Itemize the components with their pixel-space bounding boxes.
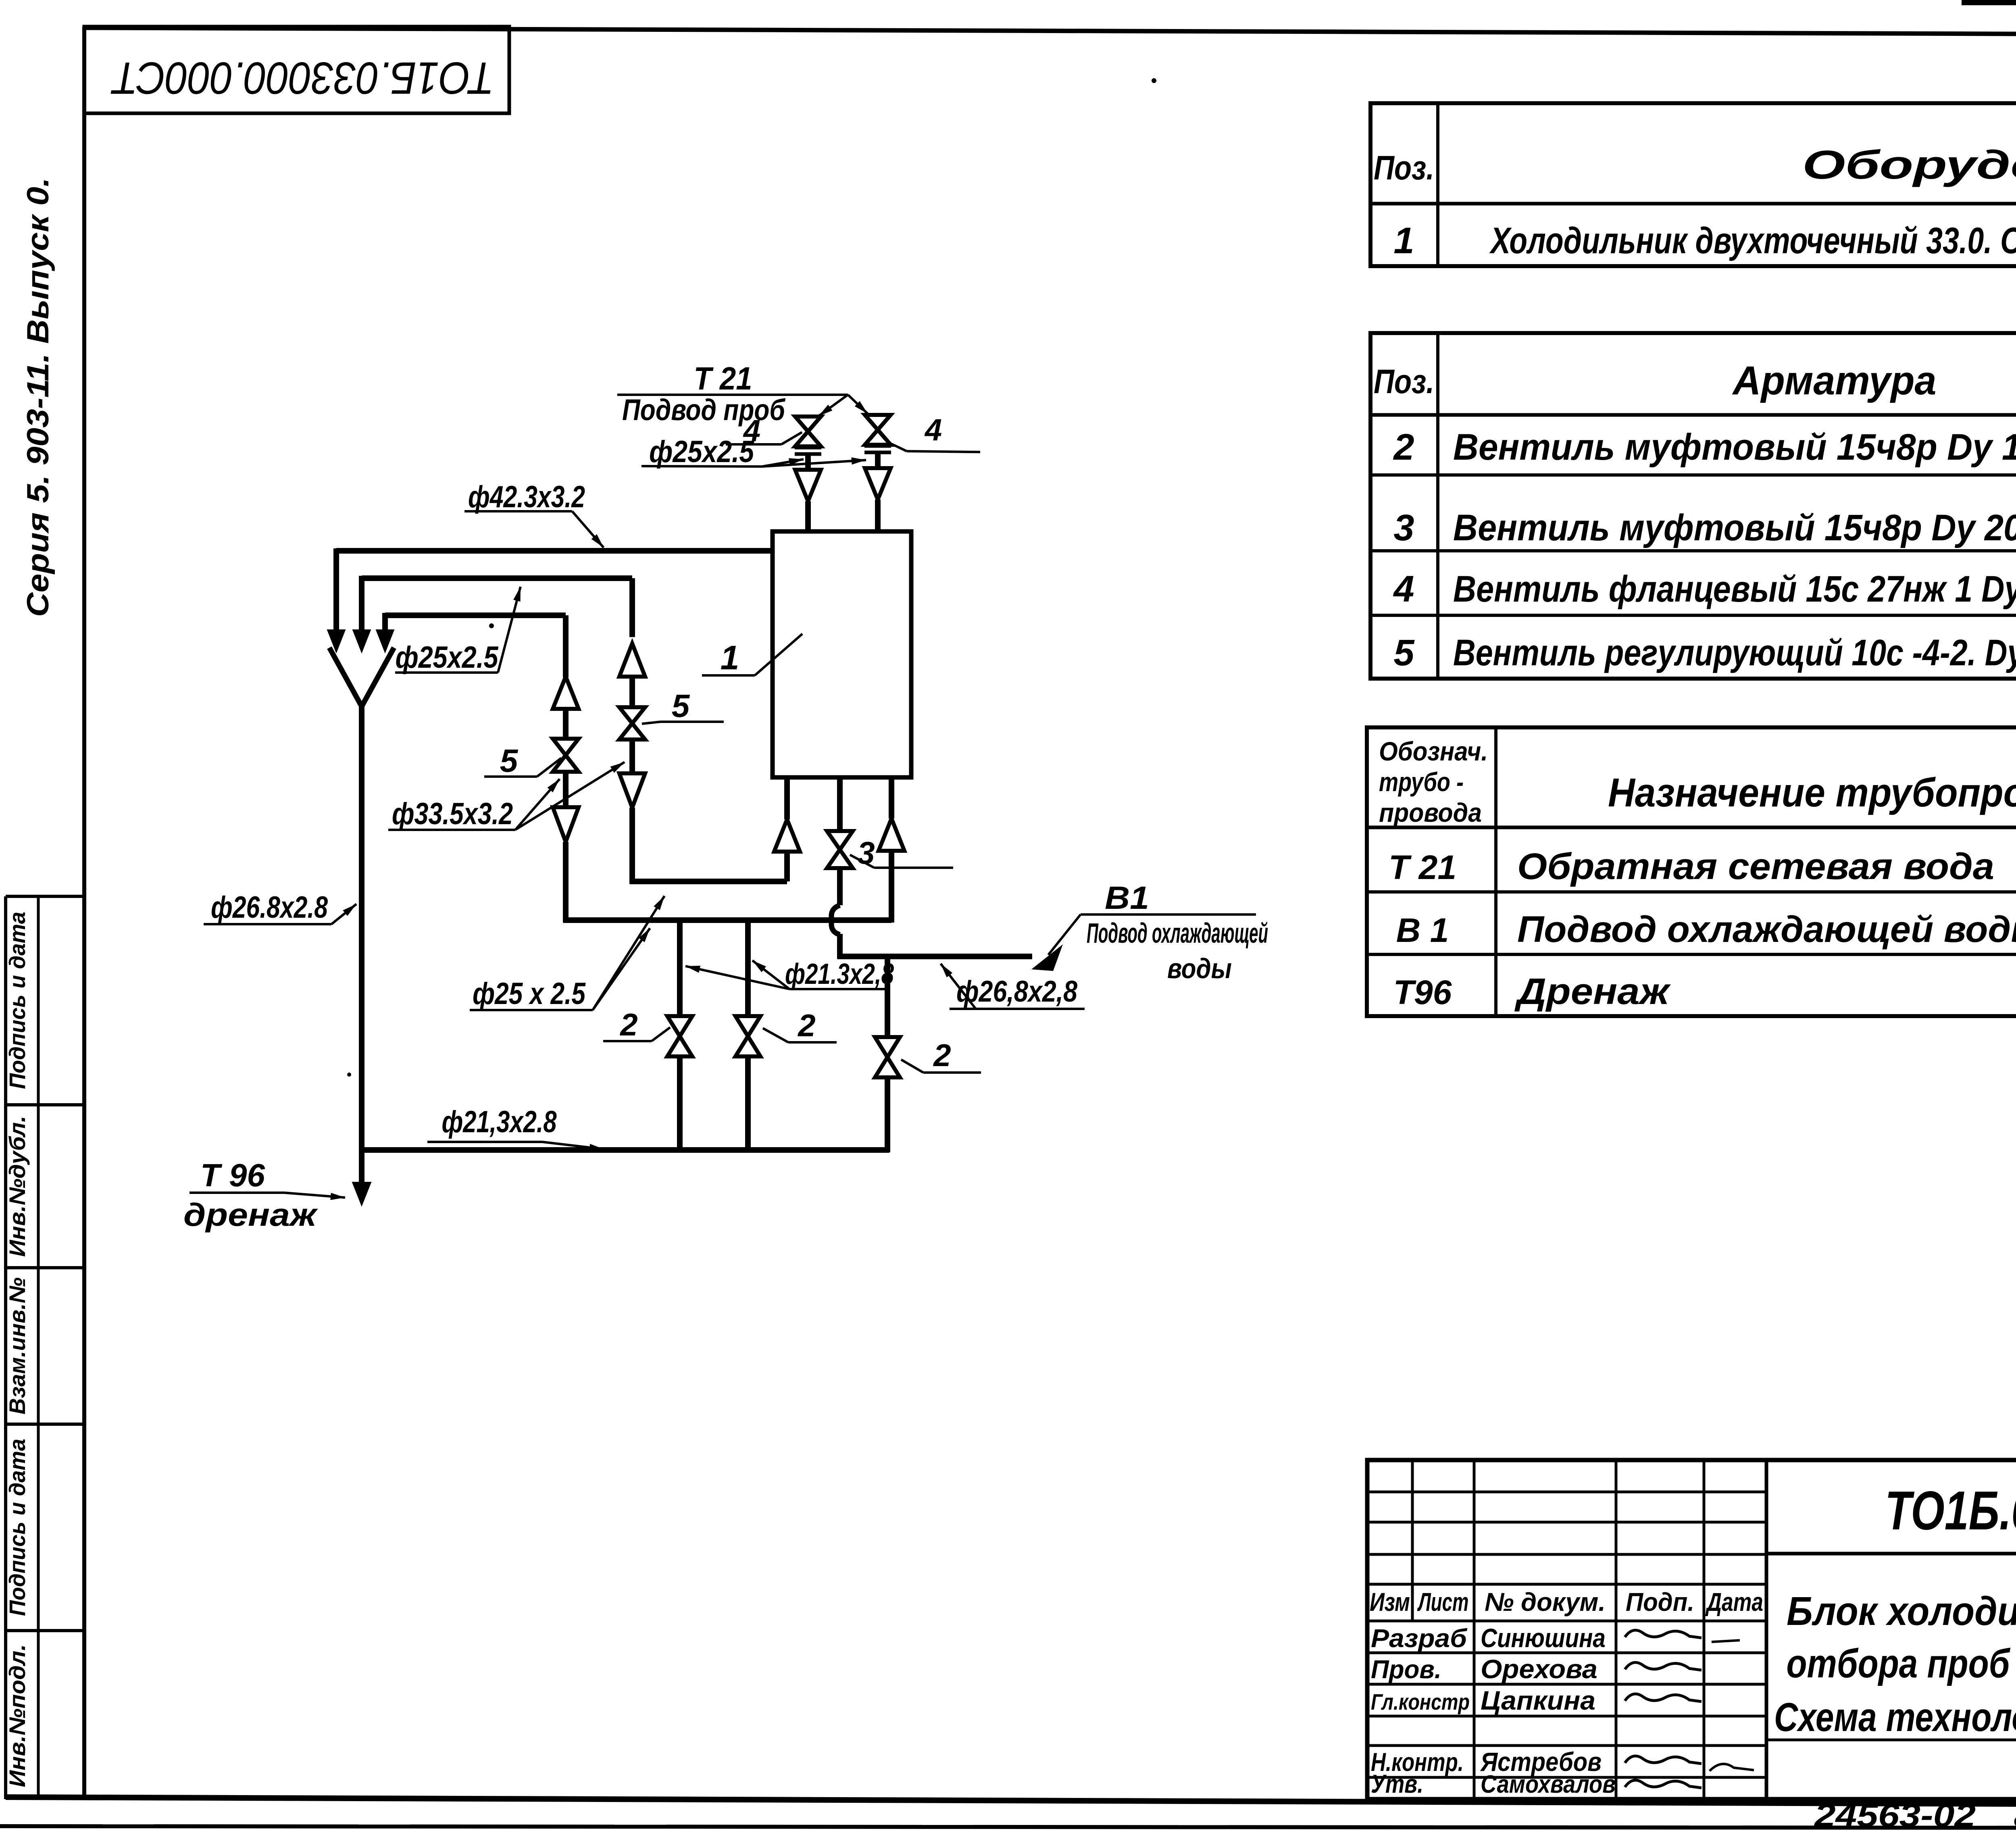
svg-text:Блок холодильника: Блок холодильника <box>1787 1589 2016 1634</box>
svg-text:Орехова: Орехова <box>1481 1654 1597 1684</box>
svg-text:Подпись и дата: Подпись и дата <box>4 1439 30 1616</box>
svg-text:Вентиль муфтовый 15ч8р Dу: Вентиль муфтовый 15ч8р Dу 15 , Ру 10 <box>1453 427 2016 468</box>
svg-text:Инв.№подл.: Инв.№подл. <box>4 1644 30 1787</box>
svg-text:отбора проб БХОП: отбора проб БХОП <box>1787 1641 2016 1686</box>
svg-text:ТО1Б.033000.000СТ: ТО1Б.033000.000СТ <box>110 53 494 103</box>
svg-text:Арматура: Арматура <box>1732 358 1937 403</box>
svg-text:Дренаж: Дренаж <box>1514 971 1671 1012</box>
svg-text:Т 21: Т 21 <box>694 360 752 396</box>
svg-text:82: 82 <box>2014 1798 2016 1831</box>
svg-text:Подпись и дата: Подпись и дата <box>4 912 30 1089</box>
svg-text:Поз.: Поз. <box>1374 149 1434 187</box>
svg-text:ф42.3х3.2: ф42.3х3.2 <box>468 480 585 514</box>
svg-text:В 1: В 1 <box>1396 911 1449 949</box>
svg-text:Инв.№дубл.: Инв.№дубл. <box>4 1116 30 1257</box>
svg-text:ф25х2.5: ф25х2.5 <box>649 435 754 469</box>
svg-text:Обознач.: Обознач. <box>1379 736 1488 766</box>
svg-text:Цапкина: Цапкина <box>1481 1685 1595 1715</box>
svg-text:Самохвалов: Самохвалов <box>1481 1771 1616 1798</box>
svg-text:Т 21: Т 21 <box>1389 848 1456 886</box>
svg-text:Вентиль муфтовый 15ч8р Dу 2: Вентиль муфтовый 15ч8р Dу 20, Ру 10 <box>1453 507 2016 548</box>
svg-text:Утв.: Утв. <box>1371 1769 1423 1798</box>
svg-text:5: 5 <box>1393 632 1415 673</box>
svg-text:Подвод охлаждающей воды: Подвод охлаждающей воды <box>1517 909 2016 950</box>
svg-text:В1: В1 <box>1105 880 1149 916</box>
svg-text:ф21.3х2,8: ф21.3х2,8 <box>785 958 894 990</box>
svg-text:Серия 5. 903-11. Выпуск 0.: Серия 5. 903-11. Выпуск 0. <box>21 177 55 617</box>
svg-text:2: 2 <box>797 1008 815 1043</box>
svg-text:24563-02: 24563-02 <box>1814 1797 1976 1831</box>
svg-text:5: 5 <box>672 688 690 724</box>
svg-text:дренаж: дренаж <box>183 1197 319 1233</box>
svg-text:Изм: Изм <box>1370 1587 1410 1616</box>
svg-text:Обратная сетевая вода: Обратная сетевая вода <box>1517 846 1994 887</box>
svg-text:Взам.инв.№: Взам.инв.№ <box>4 1277 30 1414</box>
svg-text:Лист: Лист <box>1417 1587 1469 1616</box>
svg-text:Пров.: Пров. <box>1371 1655 1441 1684</box>
svg-text:2: 2 <box>1393 427 1414 468</box>
svg-text:ф33.5х3.2: ф33.5х3.2 <box>392 797 513 831</box>
svg-text:трубо -: трубо - <box>1379 767 1464 797</box>
svg-text:ф21,3х2.8: ф21,3х2.8 <box>442 1105 557 1139</box>
svg-text:4: 4 <box>924 413 942 447</box>
svg-text:2: 2 <box>619 1007 637 1042</box>
svg-text:Холодильник двухточечный 33.0: Холодильник двухточечный 33.0. ОСТ 108.0… <box>1489 220 2016 261</box>
svg-text:ф25х2.5: ф25х2.5 <box>396 640 499 675</box>
svg-text:3: 3 <box>857 835 875 871</box>
svg-text:Т 96: Т 96 <box>200 1157 265 1193</box>
svg-text:2: 2 <box>933 1037 951 1073</box>
svg-text:Дата: Дата <box>1705 1587 1763 1616</box>
svg-text:Вентиль фланцевый 15с 27нж 1: Вентиль фланцевый 15с 27нж 1 Dу 20, Ру 6… <box>1453 569 2016 610</box>
svg-text:3: 3 <box>1393 507 1414 548</box>
svg-text:Вентиль регулирующий 10с -4-2: Вентиль регулирующий 10с -4-2. Dу 32, Ру… <box>1453 632 2016 673</box>
svg-text:Поз.: Поз. <box>1374 362 1434 400</box>
svg-text:воды: воды <box>1167 953 1232 984</box>
svg-text:ф25 х 2.5: ф25 х 2.5 <box>473 977 586 1011</box>
svg-text:Оборудование: Оборудование <box>1802 142 2016 187</box>
svg-text:Гл.констр: Гл.констр <box>1371 1689 1470 1714</box>
svg-text:ф26.8х2.8: ф26.8х2.8 <box>211 890 328 925</box>
svg-text:1: 1 <box>1393 220 1414 261</box>
svg-text:ф26,8х2,8: ф26,8х2,8 <box>956 975 1078 1008</box>
svg-text:1: 1 <box>721 639 739 677</box>
svg-text:Подвод охлаждающей: Подвод охлаждающей <box>1087 917 1268 949</box>
svg-text:5: 5 <box>500 743 519 779</box>
svg-text:Назначение трубопровода: Назначение трубопровода <box>1608 770 2016 815</box>
svg-text:4: 4 <box>1393 569 1414 610</box>
svg-text:№ докум.: № докум. <box>1485 1587 1606 1616</box>
svg-text:ТО1Б.033 000. 000 СТ: ТО1Б.033 000. 000 СТ <box>1885 1480 2016 1541</box>
svg-text:Разраб: Разраб <box>1371 1624 1468 1653</box>
svg-text:Т96: Т96 <box>1393 973 1452 1011</box>
svg-text:Синюшина: Синюшина <box>1481 1623 1606 1653</box>
svg-text:Схема технологическая: Схема технологическая <box>1774 1695 2016 1740</box>
svg-text:провода: провода <box>1379 798 1482 827</box>
svg-text:Подп.: Подп. <box>1626 1587 1694 1616</box>
svg-text:Подвод проб: Подвод проб <box>622 393 786 427</box>
